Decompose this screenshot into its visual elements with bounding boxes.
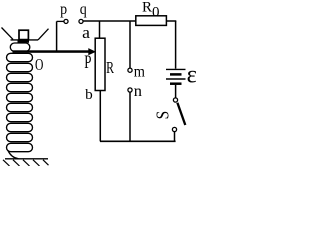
- svg-text:P: P: [84, 53, 91, 73]
- wire p stub: [57, 20, 64, 22]
- svg-text:q: q: [80, 1, 87, 18]
- floor hatch 3: [23, 160, 30, 166]
- floor hatch 4: [33, 160, 40, 166]
- pointer arrowhead P: [88, 48, 96, 55]
- pointer bar (wiper arm from spring): [13, 50, 89, 53]
- wall bracket left diagonal: [2, 28, 14, 40]
- terminal m circle: [128, 68, 132, 72]
- wire top to rheostat: [99, 21, 101, 38]
- svg-text:O: O: [35, 55, 43, 74]
- svg-text:a: a: [82, 23, 91, 42]
- floor hatch 1: [3, 160, 10, 166]
- bottom wire: [100, 140, 176, 142]
- battery plate long 1: [166, 68, 186, 70]
- top wire R0 to corner: [166, 20, 176, 22]
- svg-text:R0: R0: [142, 0, 160, 20]
- top wire q to R0: [83, 20, 136, 22]
- svg-text:b: b: [85, 87, 93, 103]
- wall bracket right diagonal: [38, 29, 49, 40]
- wire top to m: [129, 21, 131, 68]
- wire switch to bottom: [174, 132, 176, 142]
- floor hatch 2: [13, 160, 20, 166]
- platform line: [11, 39, 39, 41]
- switch top circle: [173, 98, 177, 102]
- battery plate short 1: [170, 73, 182, 76]
- floor hatch 5: [43, 160, 49, 165]
- switch blade: [177, 103, 185, 125]
- svg-text:n: n: [134, 83, 142, 100]
- svg-text:S: S: [153, 111, 173, 120]
- svg-text:p: p: [60, 1, 67, 18]
- switch bottom circle: [172, 127, 176, 131]
- battery plate long 2: [166, 78, 186, 80]
- rheostat R box: [95, 38, 105, 90]
- svg-text:ε: ε: [187, 61, 196, 88]
- wire n to bottom: [129, 92, 131, 141]
- terminal n circle: [128, 88, 132, 92]
- block on platform: [19, 30, 28, 39]
- resistor R0 box: [136, 16, 167, 26]
- wire p down to wiper: [56, 21, 58, 51]
- wire rheostat bottom: [99, 91, 101, 142]
- block shadow pad: [18, 41, 30, 43]
- svg-text:m: m: [134, 63, 146, 80]
- terminal p circle: [64, 19, 68, 23]
- right wire down to battery: [175, 21, 177, 69]
- terminal q circle: [79, 19, 83, 23]
- svg-text:R: R: [106, 58, 114, 77]
- wire battery to switch: [175, 85, 177, 98]
- battery plate short 2: [170, 82, 182, 85]
- floor: [5, 158, 48, 160]
- spring: [7, 43, 33, 159]
